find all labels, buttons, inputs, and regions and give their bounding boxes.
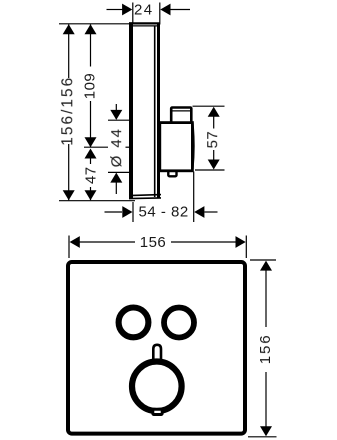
dimension Ø44 arrow up (below bottom boundary) xyxy=(110,173,122,183)
extension line handle centre xyxy=(84,146,108,148)
valve body main block xyxy=(160,123,193,171)
dimension 57 line segments xyxy=(213,115,215,161)
svg-text:54 - 82: 54 - 82 xyxy=(138,204,188,221)
dimension 54-82 extension line left xyxy=(132,202,134,222)
dimension Ø44 extension line top xyxy=(108,119,130,121)
valve body bottom tab xyxy=(168,171,176,176)
thermostat handle stem xyxy=(153,345,161,363)
wall plate top inner line xyxy=(131,25,158,27)
dimension 24 arrow right (pointing left) xyxy=(160,4,170,16)
dimension 156 right line segments xyxy=(265,268,267,429)
dimension 57 extension line bottom xyxy=(195,169,225,171)
dimension 24 extension line right xyxy=(159,3,161,25)
select button right xyxy=(164,308,194,338)
dimension 24 leader left xyxy=(107,9,123,11)
escutcheon plate front view xyxy=(68,262,245,434)
wall plate inner back line xyxy=(154,26,156,197)
dimension Ø44 upper line xyxy=(115,104,117,119)
valve body top tab inner line xyxy=(173,110,191,112)
dimension 54-82 leader left xyxy=(105,211,123,213)
dimension 54-82 arrow right (pointing left) xyxy=(194,206,204,218)
dimension Ø44 extension line bottom xyxy=(108,171,130,173)
svg-text:109: 109 xyxy=(82,73,99,100)
dimension 47 arrow up xyxy=(85,149,97,159)
thermostat handle bottom tab xyxy=(153,409,162,414)
svg-text:24: 24 xyxy=(134,1,154,18)
svg-text:57: 57 xyxy=(204,131,221,149)
dimension 156 top arrow right xyxy=(236,236,246,248)
dimension 57 arrow up xyxy=(208,107,220,117)
wall plate back face xyxy=(157,24,160,198)
dimension 57 extension line top xyxy=(193,105,225,107)
dimension 156/156 arrow up xyxy=(63,24,75,34)
wall plate front face (side view) xyxy=(129,22,133,198)
dimension 156/156 line upper segment xyxy=(68,24,70,200)
dimension Ø44 lower line xyxy=(115,174,117,195)
dimension 47 arrow down xyxy=(85,190,97,200)
wall plate bottom edge xyxy=(129,195,161,196)
svg-text:Ø 44: Ø 44 xyxy=(108,127,125,167)
dimension 109 line segments xyxy=(90,24,92,147)
extension line top (plate top level) xyxy=(59,23,133,25)
dimension 156 top extension line right xyxy=(245,236,247,259)
thermostat handle ring xyxy=(132,362,182,412)
dimension 57 arrow down xyxy=(208,160,220,170)
dimension 156 right arrow up xyxy=(260,261,272,271)
dimension 156 top arrow left xyxy=(70,236,80,248)
dimension 156/156 arrow down xyxy=(63,190,75,200)
wall plate top edge xyxy=(129,22,160,24)
dimension 109 arrow up xyxy=(85,24,97,34)
dimension 156 top extension line left xyxy=(68,236,70,259)
svg-text:156: 156 xyxy=(257,333,274,364)
dimension Ø44 arrow down (above top boundary) xyxy=(110,110,122,120)
dimension 109 arrow down xyxy=(85,137,97,147)
dimension 47 line segments xyxy=(90,155,92,200)
svg-text:156/156: 156/156 xyxy=(59,76,76,146)
dimension 156 right extension line top xyxy=(250,259,276,261)
valve body right edge bulge xyxy=(192,123,193,169)
dimension 156 right arrow down xyxy=(260,426,272,436)
select button left xyxy=(119,308,149,338)
valve body top tab xyxy=(171,108,191,123)
dimension 54-82 extension line right xyxy=(193,172,195,223)
dimension 54-82 arrow left (pointing right) xyxy=(122,206,132,218)
dimension 54-82 leader right xyxy=(204,211,217,213)
dimension 156 right extension line bottom xyxy=(248,436,277,438)
svg-text:156: 156 xyxy=(140,234,167,251)
dimension 24 extension line left xyxy=(132,3,134,25)
dimension 24 leader right xyxy=(171,9,191,11)
wall plate bottom chamfer line xyxy=(129,197,161,200)
centreline dash right xyxy=(126,146,130,148)
dimension 156 top line segments xyxy=(75,241,241,243)
svg-text:47: 47 xyxy=(83,166,100,184)
extension line bottom (plate bottom level) xyxy=(59,200,135,202)
dimension 24 arrow left (pointing right) xyxy=(122,4,132,16)
